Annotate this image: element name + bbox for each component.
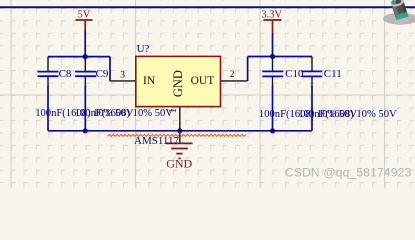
svg-text:C10: C10 [285, 68, 304, 80]
svg-text:3: 3 [120, 70, 125, 80]
svg-text:GND: GND [171, 70, 185, 97]
svg-text:C11: C11 [324, 68, 342, 80]
svg-text:IN: IN [143, 75, 156, 87]
svg-text:3.3V: 3.3V [261, 9, 282, 20]
svg-text:C8: C8 [59, 68, 72, 80]
svg-text:AMS1117: AMS1117 [134, 135, 180, 147]
svg-text:2: 2 [230, 70, 235, 80]
svg-text:GND: GND [166, 157, 192, 171]
svg-text:5V: 5V [78, 9, 91, 20]
svg-text:C9: C9 [96, 68, 109, 80]
svg-text:100nF(1608) 10% 50V: 100nF(1608) 10% 50V [75, 108, 174, 119]
svg-text:100nF(1608) 10% 50V: 100nF(1608) 10% 50V [298, 109, 397, 120]
svg-text:U?: U? [137, 43, 150, 55]
svg-text:1: 1 [168, 108, 179, 113]
svg-text:CSDN @qq_58174923: CSDN @qq_58174923 [285, 165, 411, 179]
svg-text:OUT: OUT [191, 75, 215, 87]
